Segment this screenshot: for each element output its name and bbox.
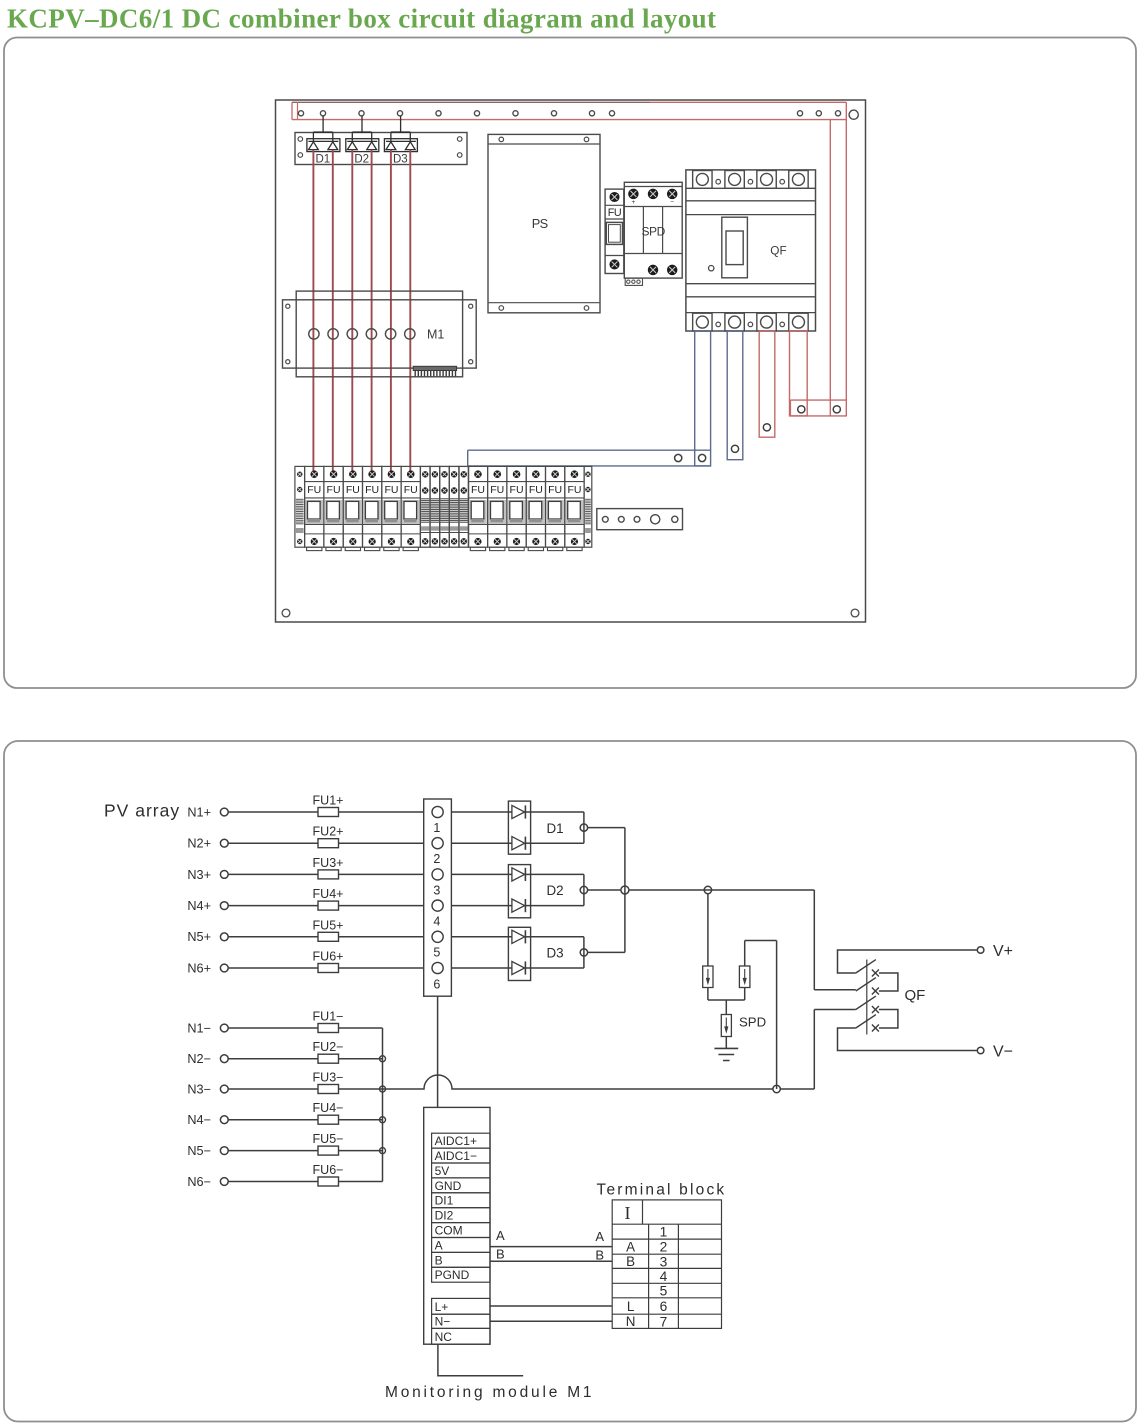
circuit breaker QF body (686, 170, 816, 331)
input terminal N5- (220, 1147, 228, 1155)
svg-text:A: A (626, 1239, 635, 1254)
M1 sensor holes (309, 329, 319, 339)
svg-text:N3−: N3− (187, 1082, 211, 1096)
svg-text:5: 5 (660, 1284, 668, 1299)
svg-text:M1: M1 (427, 327, 444, 341)
fuse module FU (supply feed) (605, 189, 624, 273)
diode D1a (512, 805, 525, 818)
svg-text:FU1−: FU1− (313, 1010, 344, 1024)
wire SPD to ground (725, 1037, 727, 1049)
svg-text:3: 3 (660, 1254, 668, 1269)
wire FU5+ to terminal strip (339, 936, 424, 938)
svg-text:FU: FU (608, 207, 622, 219)
wire terminal strip to diode D2 (451, 905, 512, 907)
wire terminal strip to diode D3 (451, 967, 512, 969)
wire terminal strip to diode D1 (451, 811, 512, 813)
enclosure mounting hole top-right (849, 110, 858, 119)
svg-text:N6+: N6+ (187, 961, 211, 975)
svg-text:N1+: N1+ (187, 805, 211, 819)
input terminal N4+ (220, 902, 228, 910)
wire FU6+ to terminal strip (339, 967, 424, 969)
M1 flange screw holes (286, 304, 290, 308)
input terminal N4- (220, 1116, 228, 1124)
wire N3- to fuse (228, 1088, 318, 1090)
wire QF pole2 lug (blue bar) (727, 331, 743, 460)
wire red drop to DC output bus (right side, double line) (829, 120, 831, 416)
fuse FU3+ (318, 870, 339, 879)
terminal strip hole 1 (432, 806, 443, 817)
diode block D2 box (508, 865, 530, 918)
svg-text:DI1: DI1 (435, 1194, 454, 1208)
svg-text:1: 1 (433, 821, 440, 835)
svg-text:B: B (595, 1247, 604, 1262)
svg-text:I: I (625, 1203, 631, 1223)
wire SPD varistor commons (707, 988, 709, 1001)
svg-text:PV array: PV array (104, 801, 180, 821)
wire combine rail (vertical) (624, 828, 626, 953)
wire D3 output merge (583, 937, 585, 968)
wire QF pole4 to DC output bus (red bar) (790, 331, 808, 416)
svg-text:FU: FU (327, 484, 341, 496)
fuse holder FU (string 1 negative) (468, 466, 487, 547)
panel 2 frame (circuit schematic) (4, 741, 1136, 1422)
M1 pin cell B (432, 1252, 490, 1267)
input terminal N3+ (220, 871, 228, 879)
wire QF pole3 lug (red bar) (759, 331, 775, 437)
diode D2b (512, 899, 525, 912)
SPD varistor 2 (739, 966, 750, 988)
surge protector SPD (624, 182, 682, 278)
wire N2- to fuse (228, 1058, 318, 1060)
wire diode D3a output (531, 936, 584, 938)
svg-text:NC: NC (435, 1330, 453, 1344)
input terminal N6+ (220, 964, 228, 972)
svg-text:PGND: PGND (435, 1268, 470, 1282)
SPD varistor 1 (703, 966, 713, 988)
fuse holder FU (string 3 positive) (343, 466, 362, 547)
enclosure mounting hole bottom-left (282, 609, 290, 617)
SPD cartridge dividers (642, 207, 644, 254)
wire PV- node to breaker drop (780, 1088, 814, 1090)
wire diode D2b output (531, 905, 584, 907)
PS mounting screws (499, 137, 504, 142)
terminal V+ (977, 947, 984, 954)
svg-text:FU: FU (365, 484, 379, 496)
terminal V- (977, 1047, 984, 1054)
svg-text:N5−: N5− (187, 1144, 211, 1158)
svg-text:B: B (496, 1247, 505, 1262)
SPD bottom screws (648, 265, 657, 274)
negative bus junction nodes (380, 1056, 386, 1062)
terminal mini module 5 (459, 466, 469, 547)
node SPD tap (704, 886, 711, 893)
svg-text:DI2: DI2 (435, 1209, 454, 1223)
svg-text:V+: V+ (993, 943, 1013, 960)
svg-text:D3: D3 (393, 153, 408, 165)
svg-text:FU: FU (510, 484, 524, 496)
wire terminal strip to monitor module (437, 996, 439, 1107)
svg-text:COM: COM (435, 1224, 463, 1238)
svg-text:2: 2 (660, 1240, 668, 1255)
wire N3+ to fuse (228, 873, 318, 875)
wire M1 RS485 B (490, 1260, 612, 1262)
wire QF pole1 to negative bus (blue bar) (695, 331, 711, 466)
panel 1 frame (layout drawing) (4, 38, 1136, 689)
wire D1 output merge (583, 812, 585, 843)
input terminal N2+ (220, 839, 228, 847)
diode plate screw holes (298, 137, 303, 142)
QF top terminals (693, 171, 712, 189)
svg-text:FU4−: FU4− (313, 1101, 344, 1115)
M1 pin cell A (432, 1238, 490, 1253)
wire FU6- to negative bus (339, 1181, 383, 1183)
wire FU3- to negative bus (339, 1088, 383, 1090)
fuse holder FU (string 6 negative) (565, 466, 584, 547)
diode assembly plate (295, 133, 467, 165)
node D2 output (580, 886, 587, 893)
svg-text:3: 3 (433, 883, 440, 897)
terminal strip hole 3 (432, 869, 443, 880)
svg-text:QF: QF (770, 244, 786, 258)
fuse FU1+ (318, 808, 339, 817)
wire N6+ to fuse (228, 967, 318, 969)
svg-text:L+: L+ (435, 1300, 449, 1314)
svg-text:SPD: SPD (739, 1015, 766, 1030)
monitoring module M1 flange (283, 300, 477, 368)
svg-text:6: 6 (660, 1299, 668, 1314)
svg-text:FU: FU (384, 484, 398, 496)
wire PV- to QF pole3 (814, 1009, 856, 1011)
wire V- output (838, 1028, 977, 1051)
wire FU4- to negative bus (339, 1119, 383, 1121)
svg-text:4: 4 (660, 1269, 668, 1284)
M1 pin cell COM (432, 1223, 490, 1238)
M1 pin cell AIDC1- (432, 1148, 490, 1163)
svg-text:FU3+: FU3+ (313, 856, 344, 870)
wire terminal strip to diode D3 (451, 936, 512, 938)
svg-text:SPD: SPD (641, 224, 665, 238)
QF toggle switch (722, 217, 748, 278)
input terminal N5+ (220, 933, 228, 941)
node PV+ combine (621, 886, 629, 894)
wire N4- to fuse (228, 1119, 318, 1121)
wire diode D3b output (531, 967, 584, 969)
wire diode D1b output (531, 842, 584, 844)
SPD top screws (629, 189, 638, 198)
fuse FU4- (318, 1115, 339, 1124)
svg-text:B: B (435, 1253, 443, 1267)
svg-text:FU: FU (529, 484, 543, 496)
svg-text:QF: QF (905, 987, 926, 1004)
svg-text:FU: FU (471, 484, 485, 496)
svg-text:FU2−: FU2− (313, 1040, 344, 1054)
svg-text:5: 5 (433, 946, 440, 960)
breaker QF pole blades (856, 960, 876, 973)
fuse holder FU (string 2 positive) (324, 466, 343, 547)
wire FU5- to negative bus (339, 1150, 383, 1152)
input terminal N2- (220, 1055, 228, 1063)
svg-text:N5+: N5+ (187, 930, 211, 944)
diode D3b (512, 961, 525, 974)
FU fuse window (606, 222, 622, 244)
fuse FU4+ (318, 901, 339, 910)
enclosure back plate (276, 100, 866, 622)
wire SPD negative leg (744, 941, 746, 967)
M1 pin cell DI1 (432, 1193, 490, 1208)
M1 pin cell N- (432, 1314, 490, 1328)
screw holes on top rail (298, 111, 303, 116)
wire red positive bus (top, horizontal run) (292, 101, 650, 103)
svg-text:−: − (670, 199, 674, 206)
wire M1 RS485 A (490, 1246, 612, 1248)
fuse holder FU (string 3 negative) (507, 466, 526, 547)
svg-text:7: 7 (660, 1314, 668, 1329)
svg-text:V−: V− (993, 1044, 1013, 1061)
power supply PS (488, 134, 600, 312)
svg-text:4: 4 (433, 915, 440, 929)
input terminal N3- (220, 1085, 228, 1093)
wire FU2+ to terminal strip (339, 842, 424, 844)
svg-text:D3: D3 (546, 946, 563, 961)
fuse FU2+ (318, 839, 339, 848)
enclosure mounting hole bottom-right (851, 609, 859, 617)
svg-text:FU6+: FU6+ (313, 950, 344, 964)
diode module D1 (307, 116, 340, 152)
svg-text:Terminal block: Terminal block (597, 1181, 727, 1198)
node PV- at SPD return (773, 1085, 780, 1092)
wire N6- to fuse (228, 1181, 318, 1183)
diode D2a (512, 868, 525, 881)
svg-text:6: 6 (433, 978, 440, 992)
fuse FU5+ (318, 932, 339, 941)
terminal strip hole 2 (432, 838, 443, 849)
svg-text:1: 1 (660, 1225, 668, 1240)
svg-text:FU2+: FU2+ (313, 825, 344, 839)
svg-text:N6−: N6− (187, 1175, 211, 1189)
wire diode D1a output (531, 811, 584, 813)
ground (714, 1047, 738, 1049)
svg-text:+: + (632, 199, 636, 206)
wire N5+ to fuse (228, 936, 318, 938)
wire PV- bus with hop over monitor lead (383, 1075, 773, 1089)
svg-text:D1: D1 (546, 821, 563, 836)
fuse FU1- (318, 1024, 339, 1033)
fuse holder FU (string 5 negative) (546, 466, 565, 547)
wire terminal strip to diode D1 (451, 842, 512, 844)
wire SPD positive leg (707, 894, 709, 966)
M1 pin cell DI2 (432, 1208, 490, 1223)
fuse holder FU (string 1 positive) (305, 466, 324, 547)
terminal strip hole 6 (432, 962, 443, 973)
FU top screw (610, 193, 619, 202)
terminal strip hole 4 (432, 900, 443, 911)
svg-text:FU: FU (404, 484, 418, 496)
svg-text:N4+: N4+ (187, 899, 211, 913)
SPD remote-signal connector (625, 278, 642, 285)
fuse holder FU (string 4 positive) (363, 466, 382, 547)
FU bottom screw (610, 260, 619, 269)
breaker QF contact crosses (872, 970, 879, 977)
svg-text:N1−: N1− (187, 1021, 211, 1035)
wire PV+ bus to breaker (629, 889, 814, 891)
wire FU2- to negative bus (339, 1058, 383, 1060)
wire N1+ to fuse (228, 811, 318, 813)
svg-text:A: A (496, 1228, 505, 1243)
M1 pin cell 5V (432, 1163, 490, 1178)
terminal strip hole 5 (432, 931, 443, 942)
wire N4+ to fuse (228, 905, 318, 907)
wire negative bus (vertical) (382, 1028, 384, 1182)
svg-text:KCPV–DC6/1 DC combiner box cir: KCPV–DC6/1 DC combiner box circuit diagr… (7, 4, 716, 34)
diode D1b (512, 837, 525, 850)
svg-text:N2+: N2+ (187, 837, 211, 851)
svg-text:2: 2 (433, 852, 440, 866)
fuse row right end cap (584, 466, 592, 547)
SPD varistor 3 (to ground) (721, 1015, 731, 1037)
svg-text:N−: N− (435, 1314, 451, 1328)
QF reset hole (709, 266, 714, 271)
monitoring module M1 body (296, 291, 462, 377)
terminal mini module 2 (430, 466, 440, 547)
svg-text:D2: D2 (546, 883, 563, 898)
wire FU1- to negative bus (339, 1027, 383, 1029)
fuse holder FU (string 4 negative) (526, 466, 545, 547)
svg-text:A: A (435, 1238, 443, 1252)
terminal mini module 3 (440, 466, 450, 547)
svg-text:5V: 5V (435, 1164, 450, 1178)
svg-text:FU: FU (490, 484, 504, 496)
svg-text:AIDC1−: AIDC1− (435, 1149, 477, 1163)
diode block D1 box (508, 801, 530, 854)
wire D1 output to combine rail (588, 827, 625, 829)
svg-text:FU3−: FU3− (313, 1071, 344, 1085)
wire D2 output to PV+ node (588, 889, 621, 891)
wire N1- to fuse (228, 1027, 318, 1029)
wire V+ output (838, 950, 977, 973)
M1 pin cell L+ (432, 1298, 490, 1314)
breaker QF linkage (866, 960, 868, 1035)
fuse holder FU (string 6 positive) (401, 466, 420, 547)
M1 pin cell PGND (432, 1267, 490, 1282)
diode D3a (512, 930, 525, 943)
fuse FU3- (318, 1085, 339, 1094)
terminal block table (612, 1200, 721, 1329)
negative bus bar (blue, above fuse row) (468, 449, 711, 451)
node D1 output (580, 824, 587, 831)
M1 pin cell NC (432, 1328, 490, 1344)
svg-text:FU4+: FU4+ (313, 887, 344, 901)
fuse FU6- (318, 1177, 339, 1186)
DC output bus bar (red, right) (790, 399, 847, 401)
svg-text:D1: D1 (315, 153, 330, 165)
terminal mini module 4 (449, 466, 459, 547)
fuse FU6+ (318, 964, 339, 973)
svg-text:Monitoring module M1: Monitoring module M1 (385, 1384, 594, 1401)
svg-text:FU5+: FU5+ (313, 918, 344, 932)
svg-text:N2−: N2− (187, 1052, 211, 1066)
wire terminal strip to diode D2 (451, 873, 512, 875)
M1 pin cell GND (432, 1178, 490, 1193)
svg-text:FU1+: FU1+ (313, 794, 344, 808)
input terminal N6- (220, 1178, 228, 1186)
svg-text:N4−: N4− (187, 1113, 211, 1127)
wire FU1+ to terminal strip (339, 811, 424, 813)
svg-text:N3+: N3+ (187, 868, 211, 882)
svg-text:N: N (626, 1314, 636, 1329)
fuse holder FU (string 5 positive) (382, 466, 401, 547)
node D3 output (580, 949, 587, 956)
wire M1 supply L+ (490, 1305, 612, 1307)
svg-text:GND: GND (435, 1179, 462, 1193)
ground bus bar (597, 509, 683, 530)
terminal mini module 1 (420, 466, 430, 547)
svg-text:AIDC1+: AIDC1+ (435, 1134, 477, 1148)
svg-text:FU: FU (307, 484, 321, 496)
monitoring module M1 box (424, 1107, 490, 1344)
svg-text:FU6−: FU6− (313, 1163, 344, 1177)
diode module D3 (384, 116, 417, 152)
svg-text:FU: FU (346, 484, 360, 496)
diode block D3 box (508, 927, 530, 980)
diode module D2 (346, 116, 379, 152)
wire FU4+ to terminal strip (339, 905, 424, 907)
wire FU3+ to terminal strip (339, 873, 424, 875)
fuse holder FU (string 2 negative) (488, 466, 507, 547)
M1 pin cell AIDC1+ (432, 1133, 490, 1148)
wire M1 supply N- (490, 1320, 612, 1322)
wire D2 output merge (583, 874, 585, 905)
wire D3 output to combine rail (588, 951, 625, 953)
svg-text:FU: FU (548, 484, 562, 496)
wires red strings from diodes to fuses (312, 150, 314, 472)
input terminal N1+ (220, 808, 228, 816)
svg-text:D2: D2 (354, 153, 369, 165)
svg-text:A: A (595, 1229, 604, 1244)
terminal strip (positive inputs) (424, 799, 452, 996)
input terminal N1- (220, 1024, 228, 1032)
fuse FU5- (318, 1146, 339, 1155)
svg-text:FU5−: FU5− (313, 1132, 344, 1146)
svg-text:FU: FU (567, 484, 581, 496)
wire QF pole3-pole4 series link (879, 1010, 898, 1029)
wire QF pole1-pole2 series link (879, 973, 898, 991)
wire N5- to fuse (228, 1150, 318, 1152)
fuse FU2- (318, 1054, 339, 1063)
svg-text:PS: PS (532, 216, 548, 231)
fuse row left end cap (295, 466, 305, 547)
svg-text:B: B (626, 1254, 635, 1269)
M1 terminal connector comb (413, 366, 456, 370)
wire N2+ to fuse (228, 842, 318, 844)
svg-text:L: L (627, 1299, 634, 1314)
wire diode D2a output (531, 873, 584, 875)
wire M1 bottom lead (438, 1344, 523, 1376)
QF bottom terminals (693, 313, 712, 331)
